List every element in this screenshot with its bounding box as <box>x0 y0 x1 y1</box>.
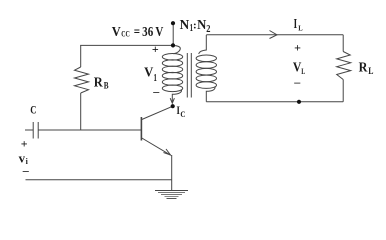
label V1 <box>144 66 157 85</box>
wire bottom left <box>26 179 172 181</box>
svg-text:–: – <box>293 75 301 89</box>
capacitor C <box>33 122 38 139</box>
label N1 : N2 <box>180 18 211 35</box>
svg-text:V: V <box>144 66 153 81</box>
svg-text:CC: CC <box>121 28 130 38</box>
ground <box>155 191 188 199</box>
transformer primary coil <box>162 46 182 100</box>
transformer secondary coil <box>196 35 216 102</box>
wire Vcc stub vertical <box>172 23 174 46</box>
wire bottom right <box>206 101 343 103</box>
svg-text:V: V <box>293 61 302 76</box>
node secondary bottom dot <box>297 100 301 104</box>
node Vcc top dot <box>171 21 175 25</box>
svg-text:R: R <box>94 75 104 90</box>
label Vcc = 36 V <box>112 25 164 40</box>
wire RB branch lower <box>80 93 82 131</box>
label vi <box>19 150 29 166</box>
svg-text:+: + <box>152 42 159 56</box>
wire secondary top <box>206 34 343 36</box>
label RB <box>94 75 109 90</box>
arrow IL <box>270 31 278 39</box>
label RL <box>359 61 374 76</box>
label IC <box>177 105 186 119</box>
svg-text:I: I <box>294 16 298 31</box>
svg-text:C: C <box>30 103 36 117</box>
svg-text:N: N <box>197 18 206 33</box>
node collector dot <box>171 104 175 108</box>
svg-text:L: L <box>298 23 302 32</box>
wire right vertical lower <box>342 80 344 102</box>
svg-text:–: – <box>22 164 30 178</box>
svg-text:1: 1 <box>154 73 157 84</box>
wire emitter vertical <box>171 155 173 191</box>
transistor Q1 <box>141 106 172 155</box>
svg-text:2: 2 <box>206 24 210 35</box>
wire RB branch upper <box>80 45 82 67</box>
svg-text:L: L <box>301 67 305 76</box>
svg-text:= 36 V: = 36 V <box>134 25 164 40</box>
wire top rail from RB to Vcc node <box>80 44 173 46</box>
label IL <box>294 16 303 32</box>
svg-text:L: L <box>368 66 373 76</box>
wire right vertical upper <box>342 35 344 52</box>
svg-text:+: + <box>21 137 28 151</box>
svg-text:V: V <box>112 25 121 40</box>
wire base from capacitor to transistor <box>38 129 141 131</box>
node primary top junction dot <box>171 43 175 47</box>
resistor RB <box>75 67 89 93</box>
svg-text:N: N <box>180 18 190 33</box>
arrow IC <box>170 98 174 103</box>
svg-text:+: + <box>294 40 301 54</box>
transformer core <box>187 53 191 98</box>
label VL <box>293 61 305 76</box>
svg-text:R: R <box>359 61 369 76</box>
wire capacitor left stub <box>25 129 33 131</box>
svg-text:C: C <box>180 110 185 119</box>
resistor RL <box>337 52 351 80</box>
svg-text:B: B <box>104 80 109 90</box>
svg-text:–: – <box>152 85 160 99</box>
